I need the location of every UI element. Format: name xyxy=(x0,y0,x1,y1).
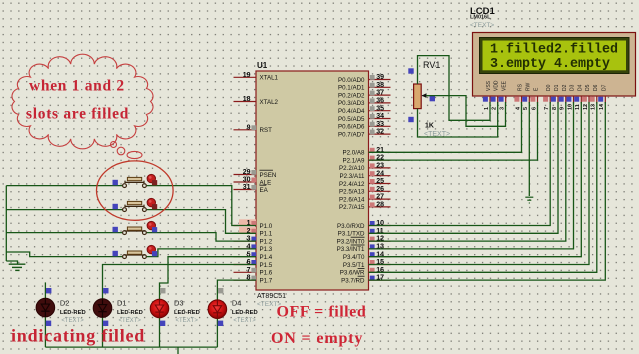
U1 pin 3 (P1.2) stub xyxy=(234,236,273,246)
wire: LCD pin 11 D4 to U1 pin 14 P3.4 xyxy=(369,102,582,257)
U1 pin 38 (P0.1/AD1) stub xyxy=(338,82,390,92)
svg-text:P3.7/RD: P3.7/RD xyxy=(341,277,365,284)
svg-text:P0.1/AD1: P0.1/AD1 xyxy=(338,85,365,92)
wire: LCD pin 10 D3 to U1 pin 13 P3.3 xyxy=(369,102,574,249)
U1 pin 25 (P2.4/A12) stub xyxy=(339,178,390,188)
wire: LED cathode rail xyxy=(45,317,217,354)
svg-text:D0: D0 xyxy=(546,84,552,91)
svg-text:<TEXT>: <TEXT> xyxy=(119,318,142,324)
svg-text:35: 35 xyxy=(376,105,384,112)
svg-text:24: 24 xyxy=(376,170,384,177)
LCD1 pin 4 (RS) xyxy=(514,83,523,110)
svg-text:D5: D5 xyxy=(585,84,591,91)
svg-text:VSS: VSS xyxy=(486,80,492,91)
svg-text:D4: D4 xyxy=(232,299,242,308)
U1 pin 1 (P1.0) stub xyxy=(234,219,273,230)
D1 state squares xyxy=(103,288,109,326)
svg-text:XTAL1: XTAL1 xyxy=(260,75,279,82)
wire: LCD pin 13 D6 to U1 pin 16 P3.6 xyxy=(369,102,597,272)
svg-text:P1.0: P1.0 xyxy=(260,223,273,230)
LCD1 pin 7 (D0) xyxy=(543,84,552,110)
svg-text:37: 37 xyxy=(376,90,384,97)
annotation text: slots are filled xyxy=(26,106,129,123)
U1 pin 6 (P1.5) stub xyxy=(234,259,273,269)
wire: pot RV1 wiper to LCD pin3 VEE xyxy=(426,96,506,127)
svg-text:34: 34 xyxy=(376,113,384,120)
svg-text:2: 2 xyxy=(492,107,498,110)
wire: LCD pin 12 D5 to U1 pin 15 P3.5 xyxy=(369,102,590,265)
svg-text:19: 19 xyxy=(243,72,251,79)
U1 pin 27 (P2.6/A14) stub xyxy=(339,194,390,204)
svg-text:P0.3/AD3: P0.3/AD3 xyxy=(338,100,365,107)
push button switch SW2 (slot 2) xyxy=(113,198,158,211)
svg-text:RST: RST xyxy=(260,127,273,134)
wire: ground bus vertical at left edge xyxy=(5,186,7,261)
push button switch SW4 (slot 4) xyxy=(113,245,158,258)
svg-text:13: 13 xyxy=(591,104,597,110)
microcontroller U1 (AT89C51) body xyxy=(256,71,369,290)
U1 pin 16 (P3.6/WR) stub xyxy=(340,267,391,277)
wire: LCD pin 7 D0 to U1 pin 10 P3.0 xyxy=(369,102,551,226)
svg-text:VEE: VEE xyxy=(502,80,508,91)
D4 reference label xyxy=(232,299,242,308)
D4 TEXT placeholder xyxy=(233,318,256,324)
U1 pin 15 (P3.5/T1) stub xyxy=(343,259,391,269)
svg-text:U1: U1 xyxy=(257,61,268,70)
svg-text:P0.5/AD5: P0.5/AD5 xyxy=(338,116,365,123)
U1 pin 34 (P0.5/AD5) stub xyxy=(338,113,390,123)
svg-text:38: 38 xyxy=(376,82,384,89)
svg-text:39: 39 xyxy=(376,74,384,81)
LED D4 (LED-RED, on) xyxy=(208,300,227,319)
D2 reference label xyxy=(60,299,70,308)
svg-text:D2: D2 xyxy=(60,299,70,308)
svg-text:P3.1/TXD: P3.1/TXD xyxy=(338,231,365,238)
svg-text:P2.3/A11: P2.3/A11 xyxy=(340,173,366,180)
svg-text:P3.4/T0: P3.4/T0 xyxy=(343,254,365,261)
wire: LCD pin 14 D7 to U1 pin 17 P3.7 xyxy=(369,102,606,280)
svg-text:P2.4/A12: P2.4/A12 xyxy=(339,181,365,188)
svg-text:LED-RED: LED-RED xyxy=(60,310,86,316)
wire: U1 pin5 P1.4 to LED D3 anode xyxy=(160,257,257,299)
wire: bus to switch SW1 xyxy=(6,185,122,187)
RV1 value label 1K xyxy=(425,123,434,130)
ground symbol at left bus xyxy=(6,261,25,270)
D4 value label LED-RED xyxy=(232,310,258,316)
LCD1 pin 9 (D2) xyxy=(559,84,568,110)
svg-text:P3.2/INT0: P3.2/INT0 xyxy=(337,238,365,245)
wire: pot RV1 top to LCD pin1 VSS xyxy=(418,56,491,121)
U1 TEXT placeholder xyxy=(257,301,281,308)
svg-text:27: 27 xyxy=(376,194,384,201)
wire: LCD pin6 E to U1 pin22 P2.1 xyxy=(369,102,538,160)
U1 pin 18 (XTAL2) stub xyxy=(234,96,279,106)
LCD1 pin 5 (RW) xyxy=(522,82,531,110)
svg-text:P0.2/AD2: P0.2/AD2 xyxy=(338,92,365,99)
LCD1 pin 2 (VDD) xyxy=(491,80,500,110)
wire: SW2 to U1 pin2 P1.1 xyxy=(147,210,256,234)
wire: bus to switch SW2 xyxy=(6,209,122,211)
U1 pin 9 (RST) stub xyxy=(234,124,273,134)
svg-text:<TEXT>: <TEXT> xyxy=(233,318,256,324)
svg-text:31: 31 xyxy=(243,184,251,191)
U1 value label AT89C51 xyxy=(257,293,286,300)
svg-text:1: 1 xyxy=(484,107,490,110)
svg-text:P0.0/AD0: P0.0/AD0 xyxy=(338,77,365,84)
svg-text:1K: 1K xyxy=(425,123,434,130)
svg-text:<TEXT>: <TEXT> xyxy=(470,22,494,29)
svg-text:P3.6/WR: P3.6/WR xyxy=(340,270,365,277)
U1 pin 29 (PSEN) stub xyxy=(234,169,277,179)
U1 pin 30 (ALE) stub xyxy=(234,177,272,187)
wire: LCD pin4 RS to U1 pin21 P2.0 xyxy=(369,102,522,152)
svg-text:P3.3/INT1: P3.3/INT1 xyxy=(337,246,365,253)
svg-text:LM016L: LM016L xyxy=(470,15,491,21)
wire: bus to switch SW4 xyxy=(6,252,122,257)
svg-text:LED-RED: LED-RED xyxy=(232,310,258,316)
svg-text:ON = empty: ON = empty xyxy=(271,330,363,347)
U1 pin 10 (P3.0/RXD) stub xyxy=(337,220,391,230)
svg-text:VDD: VDD xyxy=(494,80,500,91)
svg-text:D7: D7 xyxy=(601,84,607,91)
annotation text: indicating filled xyxy=(11,326,145,346)
svg-text:OFF = filled: OFF = filled xyxy=(277,304,367,321)
svg-text:D3: D3 xyxy=(570,84,576,91)
svg-text:28: 28 xyxy=(376,202,384,209)
svg-text:EA: EA xyxy=(260,187,269,194)
U1 pin 31 (EA) stub xyxy=(234,184,269,194)
svg-text:D4: D4 xyxy=(577,84,583,91)
svg-text:D1: D1 xyxy=(117,299,127,308)
annotation text: ON = empty xyxy=(271,330,363,347)
svg-text:P1.2: P1.2 xyxy=(260,238,273,245)
svg-text:33: 33 xyxy=(376,121,384,128)
LED D1 (LED-RED, off) xyxy=(93,299,112,318)
LCD1 pin 1 (VSS) xyxy=(483,80,492,110)
svg-text:LED-RED: LED-RED xyxy=(174,310,200,316)
svg-text:29: 29 xyxy=(243,169,251,176)
svg-text:3: 3 xyxy=(500,107,506,110)
svg-text:7: 7 xyxy=(247,267,251,274)
LCD1 display module body xyxy=(473,33,636,97)
svg-text:P1.7: P1.7 xyxy=(260,277,273,284)
U1 pin 19 (XTAL1) stub xyxy=(234,72,279,82)
push button switch SW3 (slot 3) xyxy=(113,221,158,234)
svg-text:P2.5/A13: P2.5/A13 xyxy=(339,189,365,196)
wire: bus to switch SW3 xyxy=(6,232,122,234)
push button switch SW1 (slot 1, pressed state circled) xyxy=(113,174,158,187)
D1 value label LED-RED xyxy=(117,310,143,316)
svg-text:<TEXT>: <TEXT> xyxy=(61,318,84,324)
svg-text:23: 23 xyxy=(376,163,384,170)
LCD1 value label LM016L xyxy=(470,15,491,21)
D2 TEXT placeholder xyxy=(61,318,84,324)
svg-text:P0.6/AD6: P0.6/AD6 xyxy=(338,124,365,131)
U1 pin 23 (P2.2/A10) stub xyxy=(339,163,390,173)
RV1 reference label xyxy=(423,60,440,70)
D1 reference label xyxy=(117,299,127,308)
LCD1 pin 13 (D6) xyxy=(590,84,599,110)
svg-text:D6: D6 xyxy=(593,84,599,91)
LED D2 (LED-RED, off) xyxy=(36,298,55,317)
LED D3 (LED-RED, on) xyxy=(150,299,169,318)
svg-text:D3: D3 xyxy=(174,299,184,308)
svg-text:P3.5/T1: P3.5/T1 xyxy=(343,262,365,269)
LCD1 reference label xyxy=(470,6,496,17)
svg-text:D2: D2 xyxy=(562,84,568,91)
U1 pin 32 (P0.7/AD7) stub xyxy=(338,129,390,139)
svg-text:P1.4: P1.4 xyxy=(260,254,273,261)
svg-text:<TEXT>: <TEXT> xyxy=(176,318,199,324)
svg-text:XTAL2: XTAL2 xyxy=(260,99,279,106)
wire: SW4 to U1 pin4 P1.3 xyxy=(147,249,256,257)
annotation text: when 1 and 2 xyxy=(29,78,125,95)
svg-text:AT89C51: AT89C51 xyxy=(257,293,286,300)
annotation ellipse circling SW1 and SW2 xyxy=(97,161,174,220)
wire: LCD pin 9 D2 to U1 pin 12 P3.2 xyxy=(369,102,566,241)
U1 pin 33 (P0.6/AD6) stub xyxy=(338,121,390,131)
U1 pin 21 (P2.0/A8) stub xyxy=(342,147,390,157)
U1 pin 4 (P1.3) stub xyxy=(234,244,273,254)
U1 pin 22 (P2.1/A9) stub xyxy=(342,155,390,165)
svg-text:indicating filled: indicating filled xyxy=(11,326,145,346)
svg-text:RW: RW xyxy=(525,82,531,91)
RV1 terminal state squares xyxy=(408,68,435,122)
svg-text:P0.4/AD4: P0.4/AD4 xyxy=(338,108,365,115)
LCD1 pin 8 (D1) xyxy=(551,84,560,110)
LCD1 screen text line 2 xyxy=(490,57,610,72)
svg-text:5: 5 xyxy=(523,107,529,110)
svg-text:P2.6/A14: P2.6/A14 xyxy=(339,196,365,203)
LCD1 pin 11 (D4) xyxy=(574,84,583,110)
U1 pin 24 (P2.3/A11) stub xyxy=(340,170,391,180)
svg-text:RV1: RV1 xyxy=(423,60,440,70)
svg-text:P0.7/AD7: P0.7/AD7 xyxy=(338,131,365,138)
LCD1 pin 6 (E) xyxy=(530,87,539,110)
U1 pin 36 (P0.3/AD3) stub xyxy=(338,98,390,108)
LCD1 pin 10 (D3) xyxy=(566,84,575,110)
D3 TEXT placeholder xyxy=(176,318,199,324)
svg-text:D1: D1 xyxy=(554,84,560,91)
U1 pin 2 (P1.1) stub xyxy=(234,227,273,238)
svg-text:26: 26 xyxy=(376,186,384,193)
wire: SW3 to U1 pin3 P1.2 xyxy=(147,233,256,242)
LCD1 pin 14 (D7) xyxy=(598,84,607,110)
U1 pin 12 (P3.2/INT0) stub xyxy=(337,236,391,246)
U1 pin 13 (P3.3/INT1) stub xyxy=(337,244,391,254)
svg-text:7: 7 xyxy=(544,107,550,110)
svg-text:LED-RED: LED-RED xyxy=(117,310,143,316)
U1 pin 17 (P3.7/RD) stub xyxy=(341,275,390,285)
U1 pin 28 (P2.7/A15) stub xyxy=(339,202,390,212)
wire: LED D1 anode to U1 pin6 P1.5 xyxy=(103,265,257,299)
svg-text:8: 8 xyxy=(552,107,558,110)
wire: LCD pin 8 D1 to U1 pin 11 P3.1 xyxy=(369,102,559,233)
wire: SW1 to U1 pin1 P1.0 xyxy=(147,186,256,226)
svg-text:1.filled2.filled: 1.filled2.filled xyxy=(490,42,618,57)
svg-text:10: 10 xyxy=(567,104,573,110)
U1 pin 39 (P0.0/AD0) stub xyxy=(338,74,390,84)
U1 pin 37 (P0.2/AD2) stub xyxy=(338,90,390,100)
svg-text:6: 6 xyxy=(531,107,537,110)
U1 pin 11 (P3.1/TXD) stub xyxy=(338,228,391,238)
svg-text:slots are filled: slots are filled xyxy=(26,106,129,123)
U1 pin 7 (P1.6) stub xyxy=(234,267,273,277)
wire: pot RV1 bottom to LCD pin2 VDD xyxy=(418,102,498,137)
resistor RV1 (1K potentiometer) body xyxy=(414,84,422,109)
svg-text:12: 12 xyxy=(583,104,589,110)
svg-text:32: 32 xyxy=(376,129,384,136)
D2 value label LED-RED xyxy=(60,310,86,316)
svg-text:PSEN: PSEN xyxy=(260,172,277,179)
D3 value label LED-RED xyxy=(174,310,200,316)
svg-text:P1.6: P1.6 xyxy=(260,270,273,277)
D3 state squares xyxy=(160,288,166,326)
U1 pin 14 (P3.4/T0) stub xyxy=(343,251,391,261)
LCD1 TEXT placeholder xyxy=(470,22,494,29)
svg-text:25: 25 xyxy=(376,178,384,185)
svg-text:3.empty 4.empty: 3.empty 4.empty xyxy=(490,57,610,72)
U1 reference label xyxy=(257,61,268,70)
svg-text:9: 9 xyxy=(247,124,251,131)
svg-text:P2.0/A8: P2.0/A8 xyxy=(342,150,365,157)
D3 reference label xyxy=(174,299,184,308)
ground symbol under RW wire xyxy=(525,197,533,203)
svg-text:P2.7/A15: P2.7/A15 xyxy=(339,204,365,211)
svg-text:30: 30 xyxy=(243,177,251,184)
RV1 wiper arrow xyxy=(422,93,434,98)
svg-text:P3.0/RXD: P3.0/RXD xyxy=(337,223,365,230)
D4 state squares xyxy=(218,288,224,326)
U1 pin 8 (P1.7) stub xyxy=(234,275,273,285)
annotation text: OFF = filled xyxy=(277,304,367,321)
svg-text:P1.5: P1.5 xyxy=(260,262,273,269)
U1 pin 26 (P2.5/A13) stub xyxy=(339,186,390,196)
svg-text:P2.2/A10: P2.2/A10 xyxy=(339,165,365,172)
svg-text:14: 14 xyxy=(599,103,605,110)
svg-text:P1.1: P1.1 xyxy=(260,231,273,238)
svg-text:when 1 and 2: when 1 and 2 xyxy=(29,78,125,95)
svg-text:P1.3: P1.3 xyxy=(260,246,273,253)
RV1 TEXT placeholder xyxy=(424,131,450,138)
LCD1 pin 12 (D5) xyxy=(582,84,591,110)
D1 TEXT placeholder xyxy=(119,318,142,324)
wire: LED D2 anode stub xyxy=(44,282,46,298)
U1 pin 35 (P0.4/AD4) stub xyxy=(338,105,390,115)
svg-text:P2.1/A9: P2.1/A9 xyxy=(342,157,365,164)
D2 state squares xyxy=(46,288,52,326)
svg-text:36: 36 xyxy=(376,98,384,105)
svg-text:11: 11 xyxy=(575,104,581,110)
U1 pin 5 (P1.4) stub xyxy=(234,251,273,261)
svg-text:18: 18 xyxy=(243,96,251,103)
wire: LED D4 anode to U1 pin8 P1.7 xyxy=(217,280,256,300)
svg-text:9: 9 xyxy=(560,107,566,110)
svg-text:RS: RS xyxy=(518,83,524,91)
LCD1 screen text line 1 xyxy=(490,42,618,57)
wire: LCD pin5 RW to ground xyxy=(528,102,530,196)
annotation cloud tail bubbles xyxy=(111,142,143,159)
annotation thought cloud outline xyxy=(12,54,153,149)
LCD1 pin 3 (VEE) xyxy=(499,80,508,110)
